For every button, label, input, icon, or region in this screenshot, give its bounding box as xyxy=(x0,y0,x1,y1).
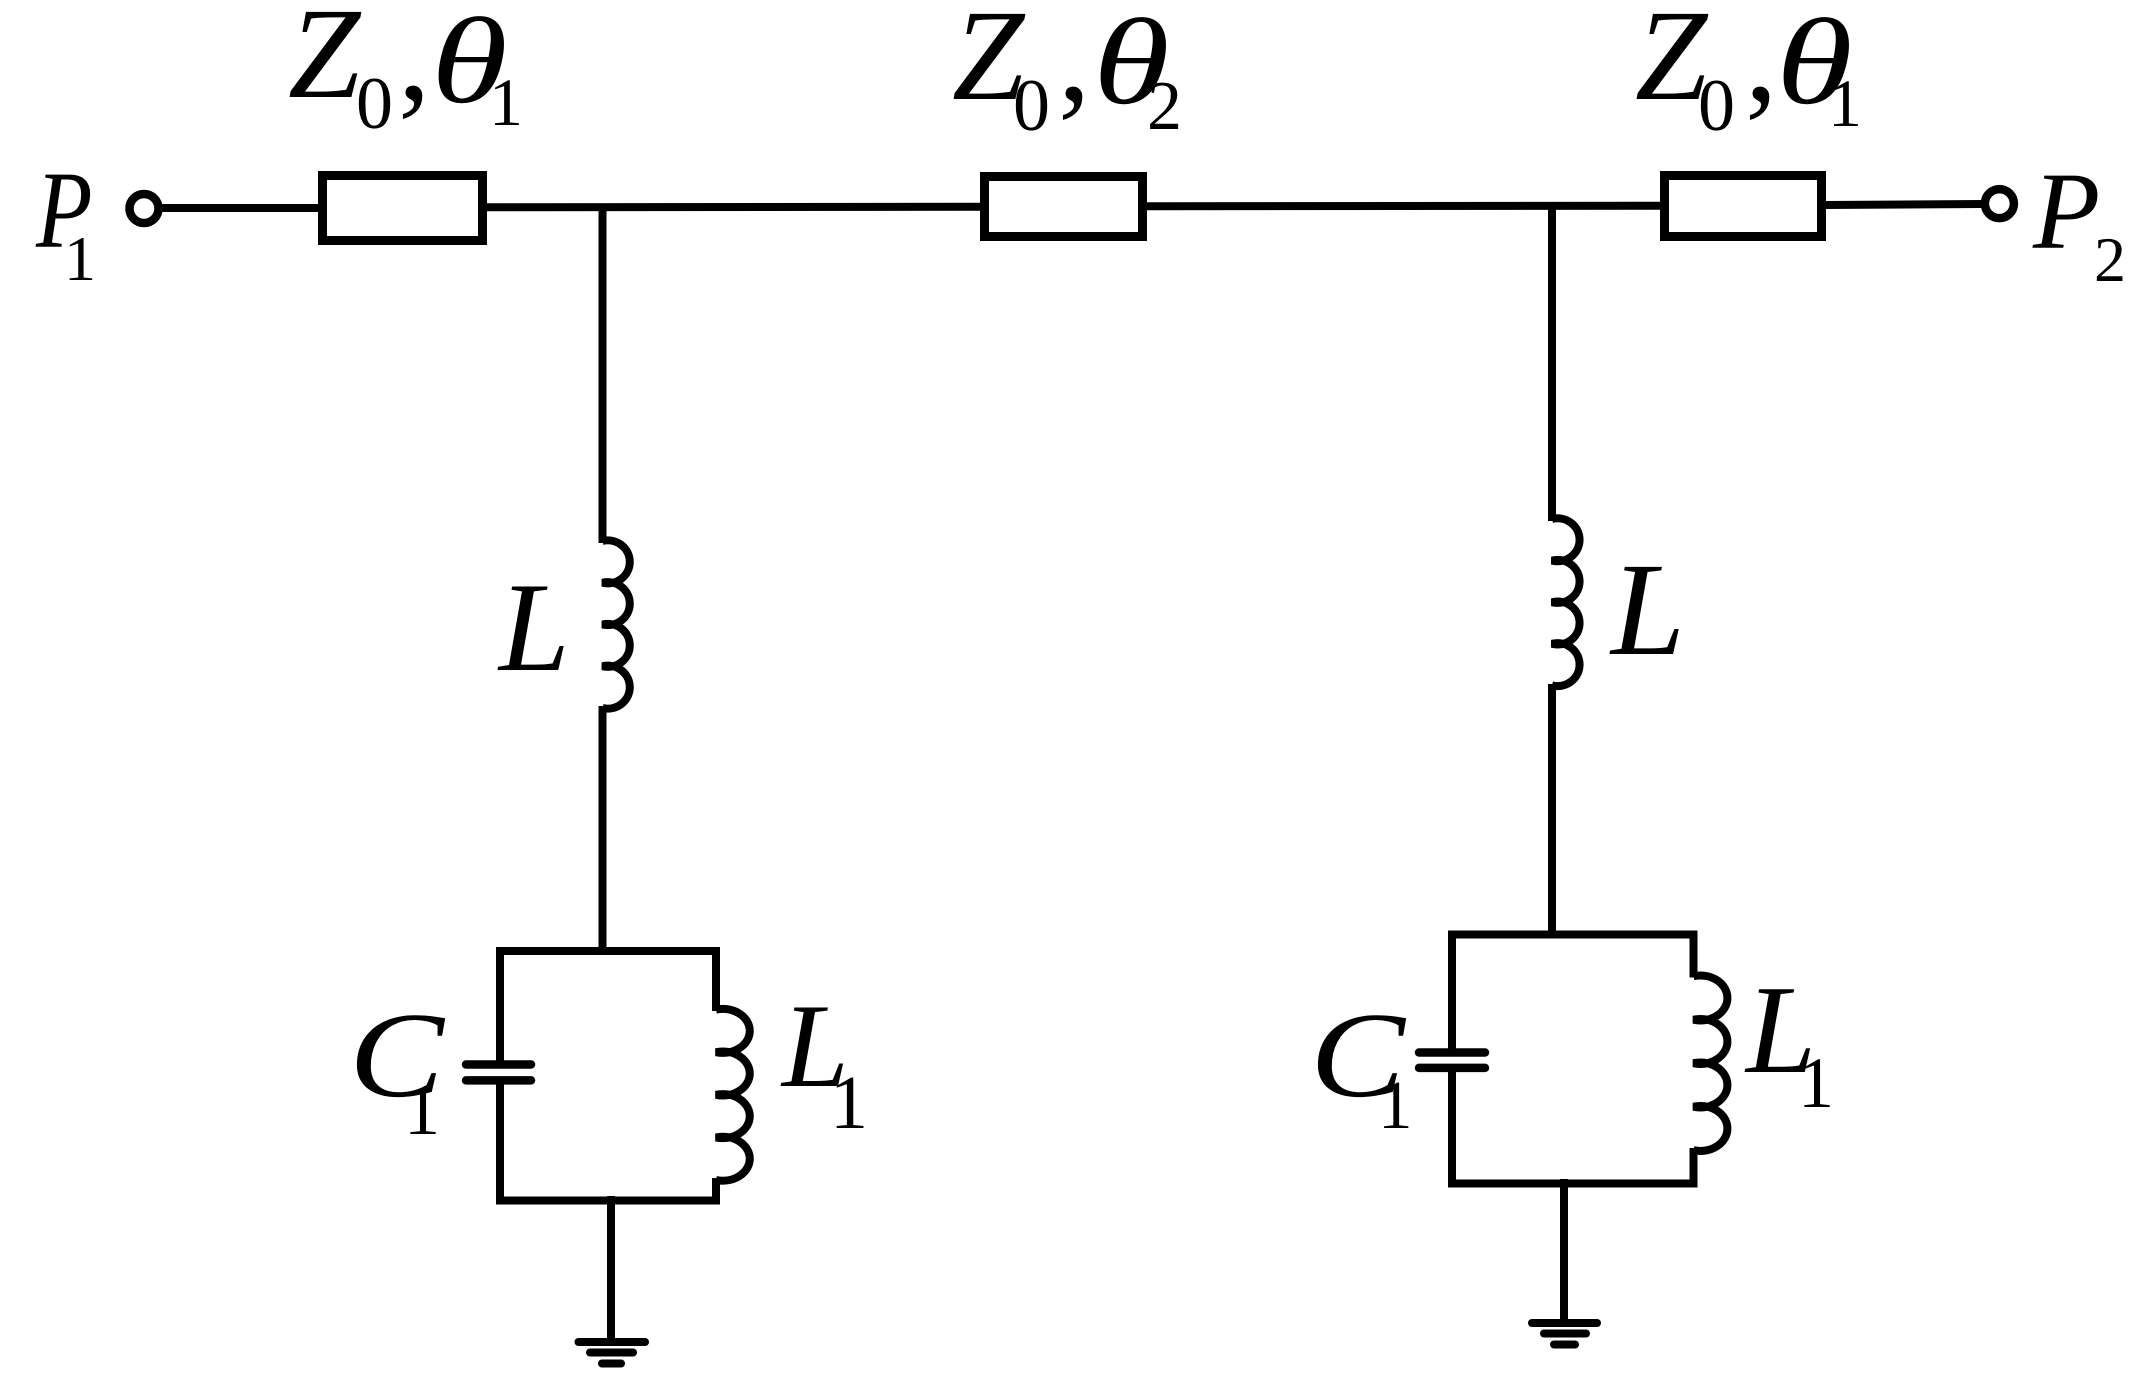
transmission line TL2 xyxy=(985,177,1143,237)
terminal P1 xyxy=(130,194,159,223)
transmission line TL1 xyxy=(323,176,483,241)
wire TL1 to TL2 xyxy=(487,203,984,212)
svg-text:1: 1 xyxy=(1378,1067,1413,1143)
svg-text:1: 1 xyxy=(404,1070,440,1150)
svg-text:1: 1 xyxy=(1828,65,1862,141)
transmission line TL3 xyxy=(1665,176,1822,237)
inductor L1 (right tank) xyxy=(1694,975,1728,1150)
wire L to tank2 xyxy=(1548,684,1556,938)
inductor L1 (left tank) xyxy=(716,1009,750,1181)
tank1 left edge upper xyxy=(496,947,504,1061)
svg-text:,: , xyxy=(398,0,431,128)
svg-text:L: L xyxy=(1609,535,1685,683)
tank1 left edge lower xyxy=(496,1084,504,1205)
label C1 (right) xyxy=(1310,987,1413,1143)
capacitor C1 (right) plates xyxy=(1419,1048,1485,1057)
svg-text:1: 1 xyxy=(64,223,96,294)
wire P1 to TL1 xyxy=(162,204,322,212)
wire TL3 to P2 xyxy=(1826,204,1983,205)
label Z0,theta1 (left) xyxy=(288,0,523,145)
tank1 right edge upper xyxy=(712,947,720,1011)
node A vertical wire xyxy=(599,207,607,543)
tank1 top edge xyxy=(496,947,720,955)
label L1 (right) xyxy=(1744,961,1834,1123)
wire L to tank1 xyxy=(599,706,607,955)
label L (left) xyxy=(497,558,570,698)
ground (left) xyxy=(579,1338,646,1346)
svg-text:1: 1 xyxy=(489,64,523,140)
label Z0,theta1 (right) xyxy=(1635,0,1862,147)
inductor L (left) xyxy=(603,540,630,708)
terminal P2 xyxy=(1985,189,2014,218)
svg-text:0: 0 xyxy=(356,63,393,145)
svg-text:0: 0 xyxy=(1013,65,1050,147)
tank2 left edge lower xyxy=(1448,1072,1456,1188)
port P1 label xyxy=(35,148,96,294)
svg-text:,: , xyxy=(1745,0,1778,129)
capacitor C1 (left) plates xyxy=(466,1060,531,1069)
tank2 right edge lower xyxy=(1690,1148,1698,1188)
tank2 right edge upper xyxy=(1690,931,1698,978)
svg-text:,: , xyxy=(1058,0,1091,129)
svg-text:2: 2 xyxy=(2094,224,2126,295)
svg-text:P: P xyxy=(2032,150,2100,272)
inductor L (right) xyxy=(1552,518,1580,686)
wire tank2 to ground xyxy=(1560,1179,1568,1323)
ground (right) xyxy=(1532,1319,1597,1327)
label C1 (left) xyxy=(349,987,446,1150)
svg-text:0: 0 xyxy=(1698,65,1735,147)
port P2 label xyxy=(2032,150,2126,295)
tank1 right edge lower xyxy=(712,1178,720,1205)
wire TL2 to TL3 xyxy=(1147,202,1664,211)
svg-text:1: 1 xyxy=(1798,1043,1834,1123)
svg-text:L: L xyxy=(497,558,570,698)
label L (right) xyxy=(1609,535,1685,683)
label Z0,theta2 xyxy=(952,0,1182,147)
tank2 bottom edge xyxy=(1448,1180,1698,1188)
tank2 top edge xyxy=(1448,931,1698,939)
wire tank1 to ground xyxy=(607,1196,615,1342)
svg-text:Z: Z xyxy=(288,0,362,126)
node B vertical wire xyxy=(1548,206,1556,521)
svg-text:1: 1 xyxy=(830,1061,868,1145)
svg-text:2: 2 xyxy=(1147,68,1182,145)
tank2 left edge upper xyxy=(1448,931,1456,1050)
label L1 (left) xyxy=(780,979,868,1145)
tank1 bottom edge xyxy=(496,1197,720,1205)
